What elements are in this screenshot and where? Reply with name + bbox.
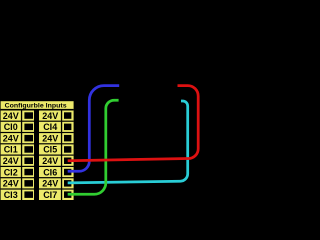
svg-text:24V: 24V bbox=[42, 111, 58, 121]
terminal pin CI4 bbox=[64, 124, 71, 131]
terminal pin CI3 bbox=[24, 191, 33, 198]
wire W1 cyan: 24V row7 pin to upper right bbox=[68, 101, 188, 183]
svg-text:CI2: CI2 bbox=[4, 167, 18, 177]
header separator line bbox=[1, 109, 74, 111]
terminal block J1 (Configurble Inputs) body bbox=[1, 101, 74, 200]
svg-text:CI6: CI6 bbox=[43, 167, 57, 177]
svg-text:24V: 24V bbox=[3, 156, 19, 166]
terminal pin 24V row7 right bbox=[64, 180, 71, 187]
svg-text:24V: 24V bbox=[42, 156, 58, 166]
terminal pin CI6 bbox=[64, 169, 71, 176]
column divider lines bbox=[21, 111, 62, 201]
svg-text:CI4: CI4 bbox=[43, 122, 57, 132]
terminal pin 24V row1 right bbox=[64, 112, 71, 119]
terminal pin 24V row3 left bbox=[24, 135, 33, 142]
wire W4 red: 24V row5 pin to upper right bbox=[68, 86, 199, 161]
terminal pin 24V row7 left bbox=[24, 180, 33, 187]
svg-text:CI3: CI3 bbox=[4, 190, 18, 200]
svg-text:24V: 24V bbox=[42, 133, 58, 143]
terminal pin 24V row5 left bbox=[24, 158, 33, 165]
terminal pin CI1 bbox=[24, 146, 33, 153]
terminal pin CI2 bbox=[24, 169, 33, 176]
terminal pin 24V row5 right bbox=[64, 158, 71, 165]
svg-text:24V: 24V bbox=[3, 133, 19, 143]
svg-text:24V: 24V bbox=[3, 111, 19, 121]
svg-text:CI0: CI0 bbox=[4, 122, 18, 132]
terminal pin CI5 bbox=[64, 146, 71, 153]
wire W2 green: CI7 pin to upper middle bbox=[68, 100, 119, 194]
terminal pin 24V row1 left bbox=[24, 112, 33, 119]
terminal pin CI0 bbox=[24, 124, 33, 131]
svg-text:CI7: CI7 bbox=[43, 190, 57, 200]
row grid lines bbox=[1, 121, 74, 190]
svg-text:24V: 24V bbox=[3, 179, 19, 189]
svg-text:24V: 24V bbox=[42, 179, 58, 189]
svg-text:CI1: CI1 bbox=[4, 145, 18, 155]
wire W3 blue: CI6 pin to upper middle bbox=[68, 86, 120, 172]
terminal pin CI7 bbox=[64, 191, 71, 198]
svg-text:CI5: CI5 bbox=[43, 145, 57, 155]
terminal pin 24V row3 right bbox=[64, 135, 71, 142]
svg-text:Configurble Inputs: Configurble Inputs bbox=[5, 103, 67, 110]
